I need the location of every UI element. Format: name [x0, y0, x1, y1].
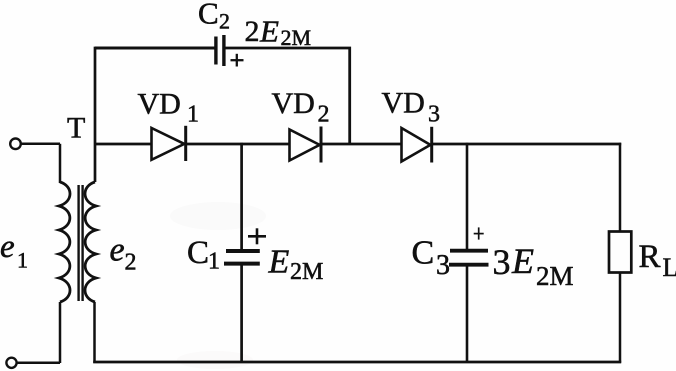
svg-text:2: 2	[318, 102, 330, 128]
wire: secondary bottom lead	[93, 302, 96, 363]
svg-text:1: 1	[17, 248, 28, 273]
label VD2	[272, 87, 330, 128]
wire: C3 branch lower	[466, 266, 469, 363]
label e1	[0, 229, 28, 273]
transformer T secondary winding e2	[85, 182, 96, 302]
wire: primary bottom lead	[59, 302, 62, 363]
svg-text:C: C	[187, 235, 209, 271]
wire: rail segment VD1 to VD2	[187, 143, 290, 146]
svg-text:C: C	[198, 0, 219, 31]
wire: vertical from top wire through rail to transformer secondary	[94, 47, 97, 182]
svg-text:1: 1	[187, 102, 199, 128]
wire: C3 branch upper	[466, 143, 469, 249]
label 2E2M (value of C2)	[245, 14, 312, 50]
resistor RL	[609, 232, 631, 273]
svg-text:2M: 2M	[281, 25, 312, 50]
label VD3	[382, 87, 441, 128]
svg-text:2: 2	[245, 15, 260, 48]
svg-text:C: C	[412, 235, 435, 272]
label C1	[187, 235, 220, 275]
svg-text:VD: VD	[382, 87, 425, 120]
diode VD3	[402, 127, 432, 163]
svg-text:2: 2	[125, 250, 137, 276]
diode VD2	[290, 127, 322, 163]
label e2	[110, 232, 137, 276]
capacitor C2	[216, 35, 224, 66]
svg-text:3: 3	[428, 102, 440, 128]
svg-text:VD: VD	[138, 88, 181, 121]
wire: right branch lower from RL	[619, 273, 622, 363]
label C2	[198, 0, 230, 34]
transformer core	[79, 185, 83, 301]
svg-text:E: E	[511, 241, 534, 281]
svg-text:2M: 2M	[290, 259, 323, 285]
wire: primary top lead	[59, 144, 62, 183]
svg-text:E: E	[268, 244, 290, 281]
scan smudge watermark	[170, 202, 266, 369]
wire: main rail segment from node T junction to VD1 anode	[95, 143, 152, 146]
terminal: top-left input	[10, 139, 60, 150]
wire: C1 branch upper	[240, 143, 243, 250]
label C3	[412, 235, 451, 282]
svg-text:1: 1	[208, 249, 220, 275]
label E2M (value of C1)	[268, 244, 324, 286]
plus polarity of C2	[231, 54, 244, 67]
label VD1	[138, 88, 200, 128]
wire: rail segment VD3 to right corner	[433, 143, 621, 146]
svg-text:R: R	[639, 239, 661, 275]
diode VD1	[152, 126, 186, 161]
svg-text:e: e	[110, 232, 125, 269]
label 3E2M (value of C3)	[493, 241, 574, 291]
plus polarity of C3	[474, 227, 484, 239]
plus polarity of C1	[248, 228, 266, 244]
svg-text:VD: VD	[272, 87, 315, 120]
svg-text:2: 2	[219, 9, 230, 34]
wire: rail segment VD2 to VD3	[322, 143, 401, 146]
wire: right branch upper to RL	[619, 143, 622, 232]
capacitor C1	[224, 251, 260, 264]
wire: top lead left of C2	[95, 47, 215, 50]
svg-text:2M: 2M	[536, 261, 574, 291]
transformer T primary winding e1	[59, 182, 70, 302]
wire: top lead right of C2 to corner	[226, 48, 350, 143]
svg-text:e: e	[0, 229, 15, 265]
terminal: bottom-left input	[6, 358, 60, 368]
svg-text:L: L	[663, 253, 676, 282]
capacitor C3	[449, 251, 489, 265]
svg-text:3: 3	[493, 242, 511, 282]
svg-text:T: T	[67, 112, 85, 145]
wire: bottom rail	[93, 361, 621, 364]
label RL	[639, 239, 676, 282]
wire: C1 branch lower	[240, 265, 243, 363]
svg-text:E: E	[259, 14, 279, 49]
svg-text:3: 3	[436, 250, 450, 281]
